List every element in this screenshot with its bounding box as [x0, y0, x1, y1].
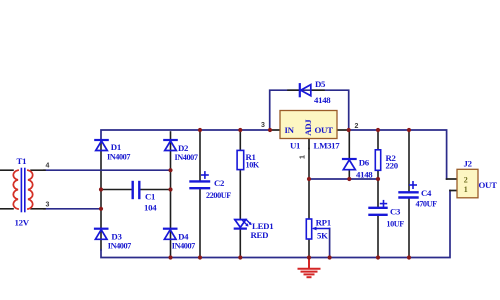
capacitor C3 [370, 201, 387, 215]
wire J2 pin2 stub [447, 178, 457, 180]
svg-text:OUT: OUT [479, 180, 498, 190]
svg-text:RED: RED [251, 230, 269, 240]
svg-text:T1: T1 [17, 156, 27, 166]
wire D5 pin stubs [288, 89, 324, 91]
diode D3 [95, 229, 107, 240]
capacitor C1 [133, 182, 140, 198]
svg-text:IN4007: IN4007 [172, 242, 195, 251]
capacitor C4 [400, 182, 418, 198]
ground [299, 258, 320, 278]
svg-text:1: 1 [300, 155, 307, 159]
svg-text:D3: D3 [111, 232, 122, 242]
diode D1 [95, 140, 107, 151]
svg-text:12V: 12V [15, 218, 30, 228]
wire RP1 wiper down [329, 229, 331, 258]
transformer T1 [13, 169, 32, 212]
resistor R2 [375, 150, 380, 171]
wire ADJ horizontal [309, 178, 378, 180]
wire U1 pin3 stub [270, 129, 280, 131]
svg-text:U1: U1 [290, 141, 300, 151]
diode D6 [343, 159, 356, 170]
wire top rail (IN net) [101, 130, 270, 140]
svg-text:IN4007: IN4007 [107, 153, 130, 162]
svg-text:2: 2 [464, 175, 468, 184]
svg-text:1: 1 [464, 185, 468, 194]
wire ADJ vertical [308, 149, 310, 220]
wire U1 pin2 stub [337, 129, 349, 131]
svg-text:470UF: 470UF [416, 200, 438, 209]
svg-text:3: 3 [46, 202, 50, 209]
svg-text:IN: IN [285, 125, 295, 135]
svg-text:C3: C3 [390, 207, 401, 217]
svg-text:3: 3 [261, 122, 265, 129]
wire bottom rail (ground net) [101, 191, 450, 258]
potentiometer RP1 [306, 219, 329, 239]
wire OUT rail [349, 130, 447, 179]
op-amp regulator U1 LM317 [280, 111, 337, 139]
svg-text:D4: D4 [178, 232, 189, 242]
LED LED1 [235, 219, 252, 228]
svg-text:220: 220 [386, 161, 399, 171]
svg-text:10K: 10K [246, 161, 260, 170]
svg-text:IN4007: IN4007 [175, 153, 198, 162]
resistor R1 [237, 150, 244, 169]
svg-text:D6: D6 [359, 158, 370, 168]
connector J2 [457, 169, 478, 198]
wire C4 branch [408, 130, 410, 258]
wire D5 loop [270, 90, 349, 130]
svg-text:OUT: OUT [315, 125, 334, 135]
diode D4 [164, 229, 176, 240]
diode D2 [164, 140, 176, 151]
svg-text:D5: D5 [315, 79, 326, 89]
wire transformer pin3 to bridge [44, 208, 101, 210]
svg-text:2200UF: 2200UF [206, 191, 231, 200]
wire U1 pin1 stub [308, 139, 310, 149]
wire bridge right leg [170, 132, 172, 255]
svg-text:4: 4 [46, 163, 50, 170]
wire C2 branch [199, 130, 201, 258]
svg-text:10UF: 10UF [386, 220, 404, 229]
svg-text:C2: C2 [214, 178, 225, 188]
wire C1 horizontal [101, 189, 171, 191]
svg-text:D1: D1 [111, 142, 121, 152]
svg-text:104: 104 [144, 203, 157, 213]
svg-text:C1: C1 [145, 192, 155, 202]
wire RP1 bottom lead [308, 239, 310, 258]
svg-text:ADJ: ADJ [303, 119, 313, 136]
svg-text:LM317: LM317 [314, 141, 341, 151]
wire R1 LED1 branch [239, 130, 241, 258]
wire transformer primary leads [0, 170, 45, 209]
wire J2 pin1 stub [450, 190, 457, 192]
svg-text:J2: J2 [464, 158, 473, 168]
svg-text:IN4007: IN4007 [108, 242, 131, 251]
svg-text:4148: 4148 [356, 170, 373, 180]
svg-text:2: 2 [355, 123, 359, 130]
capacitor C2 [191, 172, 210, 188]
svg-text:RP1: RP1 [316, 218, 331, 228]
wire transformer pin4 to bridge [44, 169, 171, 171]
svg-text:C4: C4 [421, 188, 432, 198]
svg-text:D2: D2 [178, 143, 189, 153]
wire D6 branch [348, 130, 350, 179]
svg-text:4148: 4148 [314, 95, 331, 105]
wire bridge left leg [100, 140, 102, 250]
svg-text:5K: 5K [317, 231, 328, 241]
diode D5 [300, 84, 311, 96]
wire R2 C3 branch [377, 130, 379, 258]
